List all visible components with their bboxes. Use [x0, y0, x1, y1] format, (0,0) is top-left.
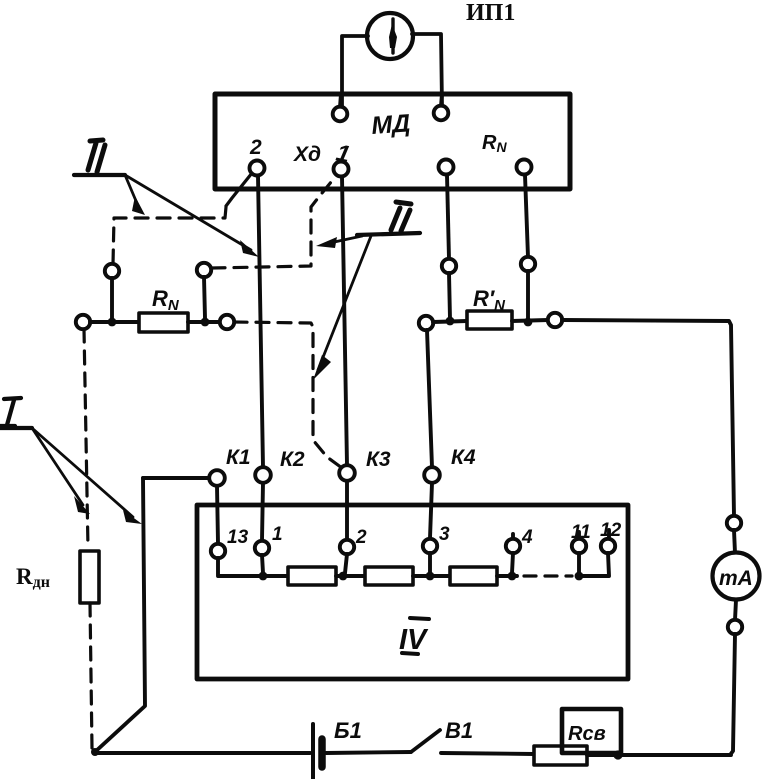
terminal 2 of МД — [250, 161, 265, 176]
wire R'N right vertical — [526, 271, 530, 320]
leader line under I — [0, 426, 32, 430]
leader line under II — [74, 173, 125, 177]
wire pin1 stub — [262, 555, 263, 573]
wire R'N right horizontal — [512, 320, 548, 321]
junction RN left — [108, 318, 117, 327]
wire dashed Rдн to bottom rail — [90, 603, 92, 748]
bottom rail left — [94, 751, 310, 755]
svg-text:RN: RN — [152, 286, 180, 314]
box IV — [197, 505, 628, 679]
junction R'N left — [446, 317, 455, 326]
pin 3 — [423, 539, 437, 553]
wire RN right vertical — [204, 277, 205, 318]
wire dashed lower to K3 — [234, 322, 342, 468]
svg-text:ИП1: ИП1 — [466, 0, 515, 26]
wire МД terminal3 down — [447, 175, 449, 259]
terminal circle above mA — [727, 516, 741, 530]
terminal circle above RN right — [197, 263, 211, 277]
switch В1 lever — [411, 730, 440, 752]
svg-text:К2: К2 — [280, 448, 305, 471]
junction bus under pin 2 — [339, 572, 348, 581]
terminal circle right of R'N — [548, 313, 562, 327]
resistor Rдн — [80, 551, 99, 603]
wire mA to bottom rail — [621, 634, 735, 755]
resistor Rсв series — [534, 746, 587, 765]
pin 11 — [572, 532, 586, 553]
wire galvanometer right lead — [412, 34, 442, 106]
junction bus under pin 3 — [426, 572, 435, 581]
terminal К1 — [209, 470, 225, 486]
pin 1 — [255, 541, 269, 555]
junction bus under pin 11 — [575, 572, 584, 581]
svg-text:2: 2 — [249, 136, 262, 159]
label II — [88, 140, 105, 172]
junction bus under pin 1 — [259, 572, 268, 581]
wire RN far-left to junction — [90, 320, 139, 324]
pin 4 — [506, 534, 520, 553]
wire RN left vertical — [110, 278, 114, 320]
wire terminal2 to K2 — [258, 176, 263, 467]
terminal circle R'N far-left — [419, 316, 433, 330]
svg-text:2: 2 — [355, 527, 367, 548]
label I — [0, 398, 21, 426]
resistor R'N — [467, 311, 512, 329]
battery Б1 plate short — [318, 739, 326, 767]
battery Б1 plate long — [311, 724, 315, 779]
galvanometer ИП1 — [367, 13, 413, 59]
arrow II short — [125, 175, 145, 215]
wire bus R3 to pin4 — [497, 574, 517, 578]
terminal circle right of RN — [220, 315, 234, 329]
svg-text:Rдн: Rдн — [16, 564, 50, 591]
wire pin4 stub — [512, 553, 513, 573]
wire pin2 stub — [345, 554, 347, 573]
svg-text:mA: mA — [719, 567, 753, 590]
wire battery to switch — [326, 752, 411, 753]
terminal 3 of МД — [439, 160, 454, 175]
terminal circle below mA — [728, 620, 742, 634]
svg-text:К1: К1 — [226, 446, 251, 469]
resistor RN — [139, 313, 188, 332]
wire mA bottom — [735, 600, 736, 620]
svg-text:13: 13 — [227, 527, 249, 548]
label III — [391, 202, 411, 231]
arrow II long — [125, 175, 259, 257]
terminal К4 — [424, 467, 440, 483]
milliammeter mA — [713, 553, 760, 600]
svg-text:3: 3 — [439, 524, 450, 545]
wire dashed RN upper to Хд — [212, 176, 336, 268]
junction bus under pin 4 — [508, 572, 517, 581]
wire К3 to pin 2 — [345, 481, 349, 539]
wire K1 horizontal — [143, 476, 209, 480]
terminal circle above R'N right — [521, 257, 535, 271]
resistor IV-R1 — [288, 567, 336, 585]
wire terminal2 diagonal stub — [226, 173, 252, 206]
wire galvanometer left lead — [342, 36, 368, 107]
svg-text:Rсв: Rсв — [568, 723, 606, 745]
svg-text:RN: RN — [482, 132, 507, 155]
terminal МД top-right — [434, 94, 449, 120]
pin 13 — [211, 544, 225, 558]
wire pin11 stub — [577, 553, 581, 573]
wire pin13 to bus — [218, 558, 288, 576]
pin 2 — [340, 540, 354, 554]
pin 12 — [601, 530, 615, 553]
terminal МД top-left — [333, 94, 348, 121]
svg-text:К4: К4 — [451, 446, 476, 469]
svg-text:Хд: Хд — [293, 143, 321, 166]
terminal К3 — [339, 465, 355, 481]
wire K4 riser — [427, 330, 432, 467]
svg-text:К3: К3 — [366, 448, 391, 471]
box МД — [215, 94, 570, 189]
terminal Хд of МД — [334, 162, 349, 177]
svg-text:1: 1 — [272, 524, 283, 545]
wire bus R1-R2 — [336, 574, 365, 578]
wire K1 branch down-left — [96, 478, 145, 751]
arrow I short — [32, 428, 90, 514]
wire bus pin11 to pin12 — [579, 553, 609, 576]
wire Хд to K3 — [342, 177, 347, 465]
terminal RN of МД — [517, 160, 532, 175]
terminal circle above RN left — [105, 264, 119, 278]
wire dashed bus pin4 to pin11 — [524, 574, 572, 577]
wire bus R2-R3 — [413, 574, 450, 578]
box Rсв — [562, 709, 621, 753]
terminal К2 — [255, 467, 271, 483]
wire R'N left horizontal — [433, 321, 467, 322]
wire К2 to pin 1 — [262, 483, 263, 540]
svg-text:4: 4 — [521, 527, 533, 548]
svg-text:МД: МД — [370, 109, 411, 140]
terminal circle above R'N left — [442, 259, 456, 273]
wire R'N left vertical — [449, 273, 450, 319]
junction RN right — [201, 318, 210, 327]
wire МД terminal RN down — [525, 175, 528, 257]
resistor IV-R3 — [450, 567, 497, 585]
wire pin3 stub — [428, 553, 432, 573]
arrow I long — [32, 428, 142, 524]
junction R'N right — [524, 318, 533, 327]
wire К1 to pin 13 — [217, 486, 218, 543]
wire switch to resistor — [441, 753, 534, 754]
junction bottom-left — [91, 748, 99, 756]
wire dashed RN far-left down to Rдн — [84, 329, 88, 548]
svg-text:Б1: Б1 — [334, 718, 362, 743]
arrow III short — [316, 236, 362, 248]
leader line under III — [357, 233, 420, 235]
wire resistor to corner — [587, 753, 731, 757]
wire dashed from terminal 2 to RN left — [113, 207, 226, 264]
svg-text:В1: В1 — [445, 718, 473, 743]
terminal circle RN far-left — [76, 315, 90, 329]
wire К4 to pin 3 — [430, 483, 432, 538]
wire to mA top — [734, 530, 735, 553]
arrow III long — [313, 236, 371, 380]
wire RN right to junction — [188, 320, 220, 324]
label IV — [399, 618, 429, 656]
wire R'N to mA branch — [562, 320, 734, 516]
resistor IV-R2 — [365, 567, 413, 585]
junction bottom-right — [613, 750, 622, 759]
